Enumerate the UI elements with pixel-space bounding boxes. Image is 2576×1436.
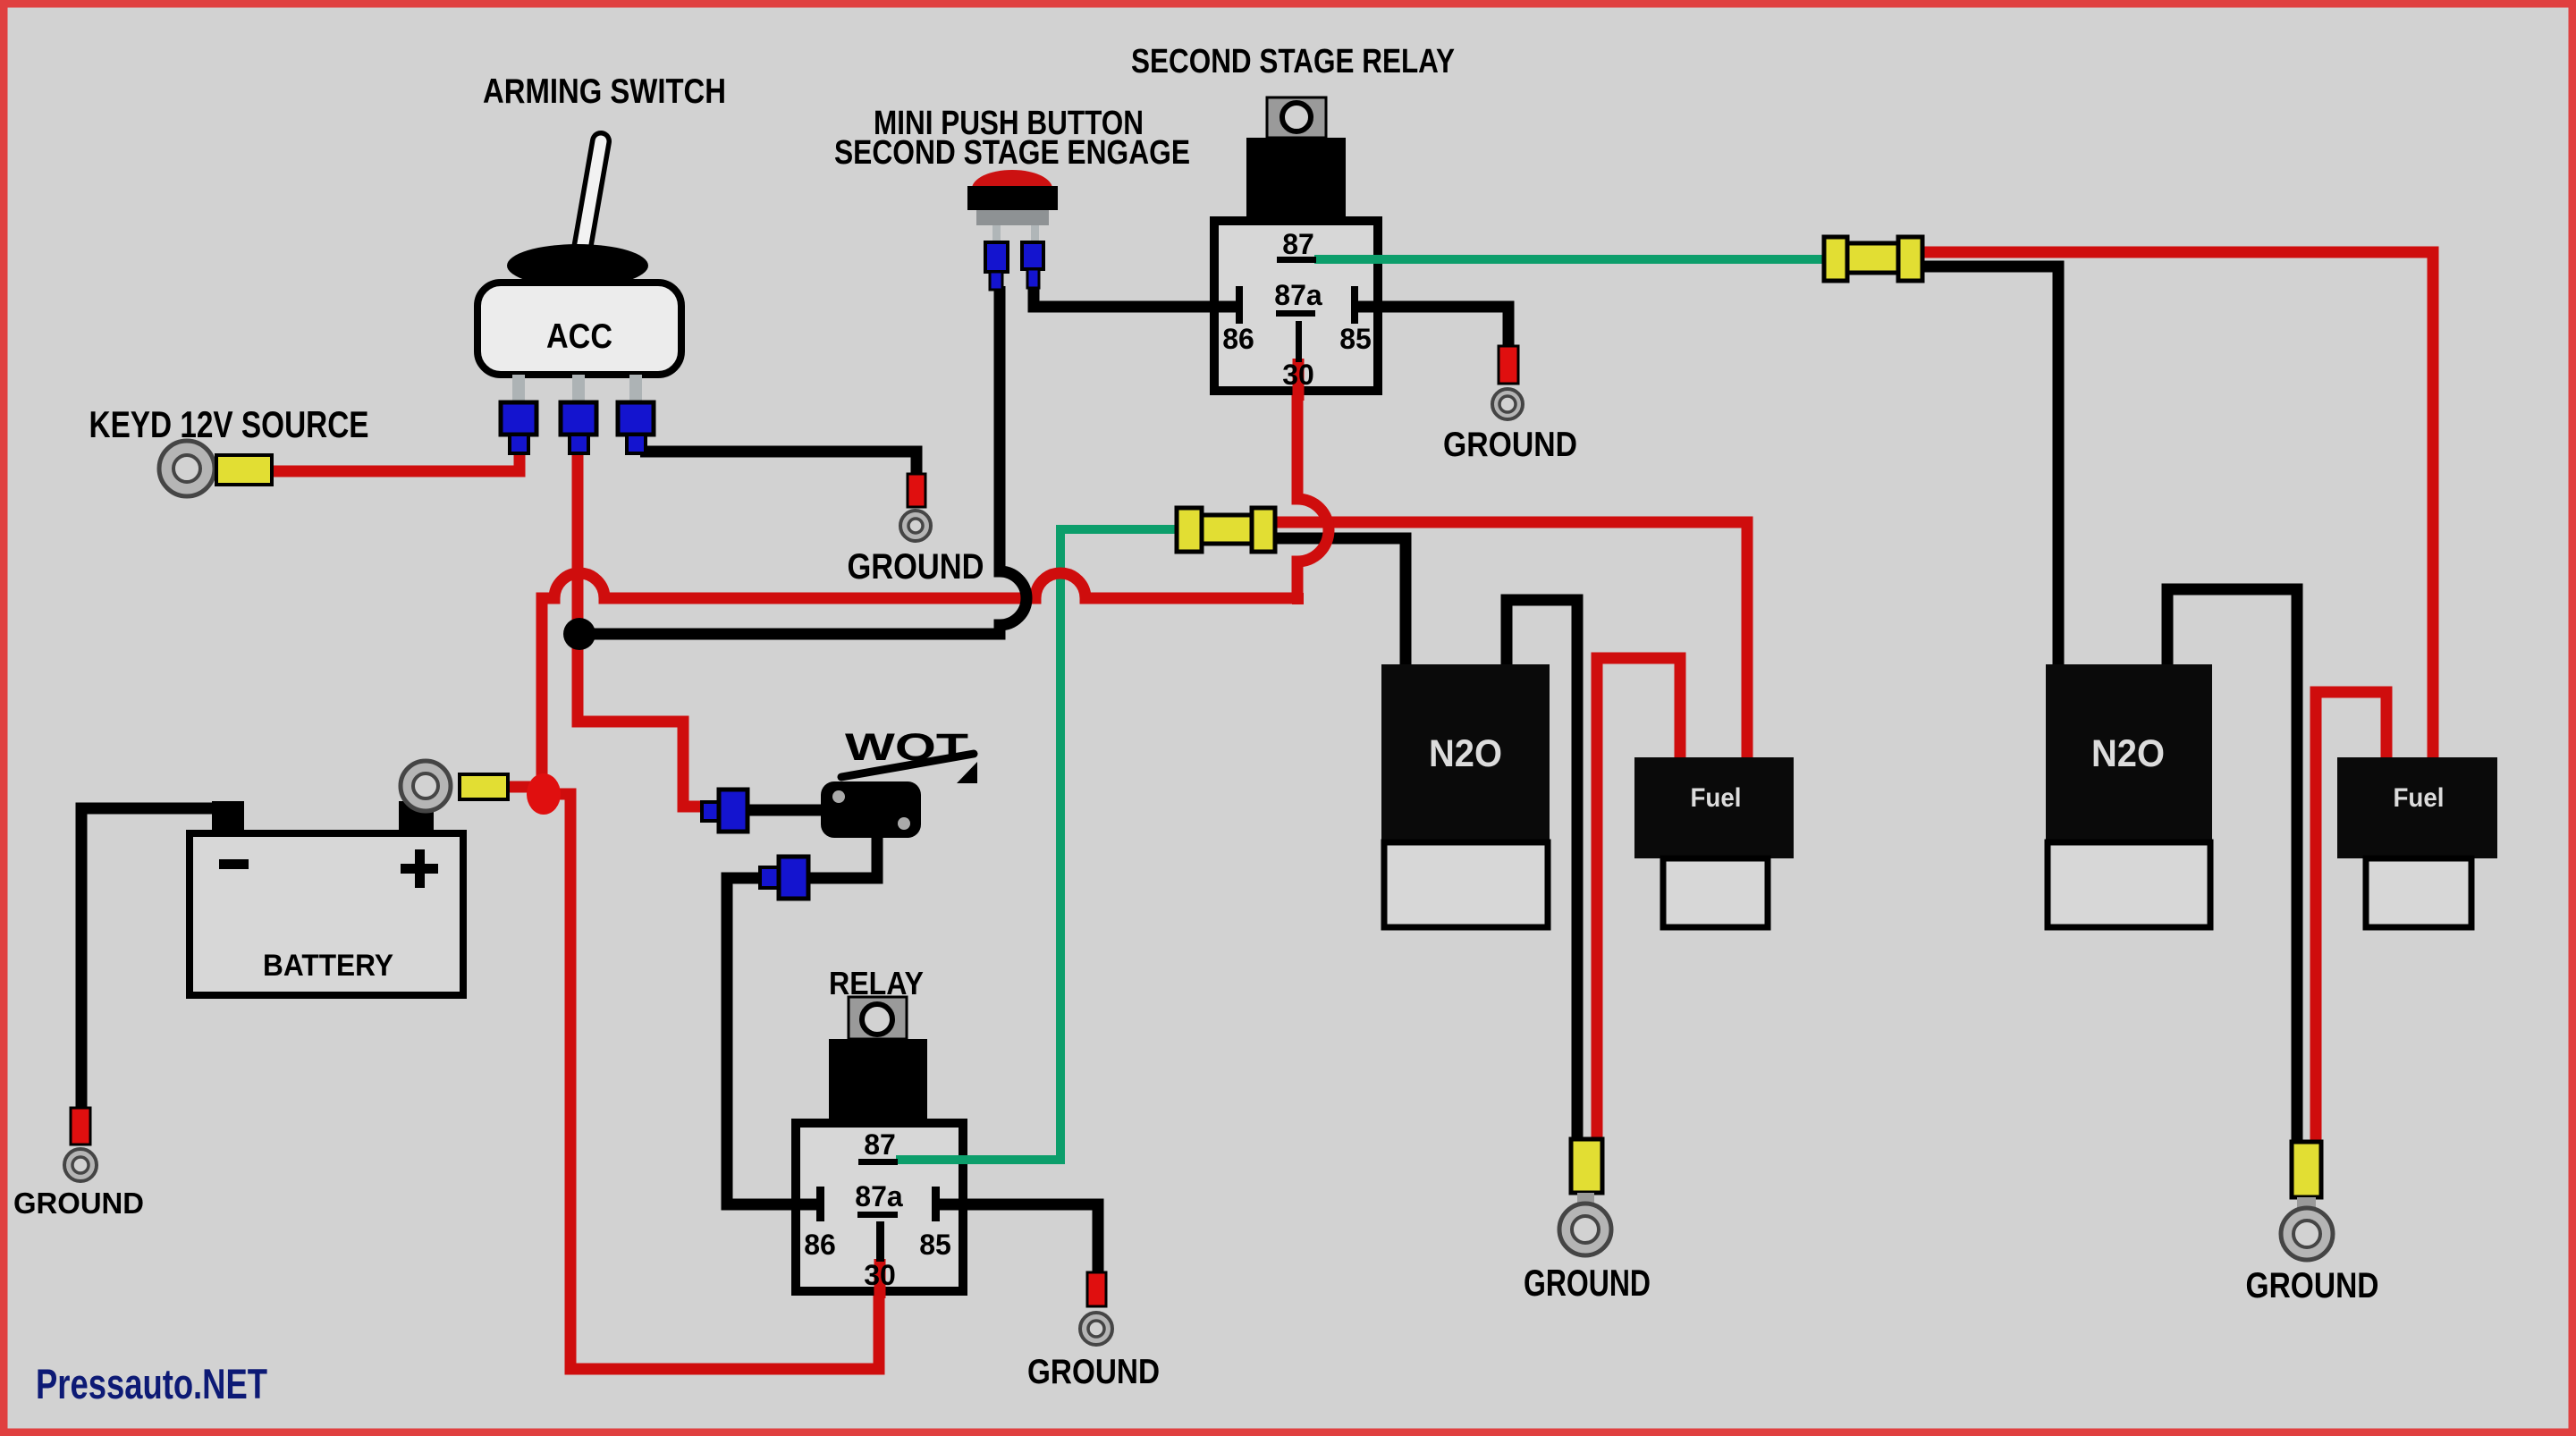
svg-text:85: 85: [1339, 323, 1372, 355]
node: black junction dot on red wire: [563, 618, 595, 650]
svg-text:BATTERY: BATTERY: [263, 949, 393, 983]
wire: red from left fuse right cap to left Fuel solenoid: [1273, 522, 1747, 759]
node: red junction dot at battery positive: [527, 773, 561, 815]
svg-text:87: 87: [864, 1128, 896, 1161]
WOT lever: [841, 754, 974, 777]
wire: black right N2O to shared ground: [2167, 589, 2297, 1145]
lower relay coil block: [829, 1039, 927, 1123]
wire: second stage relay inner pin stubs: [1314, 255, 1386, 264]
svg-text:ARMING SWITCH: ARMING SWITCH: [483, 72, 726, 111]
wire: red from ACC middle pin down to WOT switch: [578, 449, 705, 807]
second stage relay mounting tab: [1267, 97, 1326, 138]
fuse F2 (top right inline fuse): [1824, 237, 1922, 281]
second stage relay body: [1214, 221, 1378, 391]
battery: [190, 833, 463, 995]
toggle switch lever: [581, 141, 601, 254]
wire: black from right fuse down to right N2O solenoid: [1921, 266, 2058, 666]
svg-text:GROUND: GROUND: [13, 1187, 144, 1220]
svg-text:N2O: N2O: [1429, 732, 1502, 775]
wire: red stub battery sleeve to junction: [506, 781, 540, 793]
ground terminal for lower relay 85: [1087, 1272, 1106, 1306]
wire: main red 12V net from battery junction to second stage relay 30 with hops: [542, 359, 1329, 796]
fuse F1 (left inline fuse): [1177, 508, 1275, 552]
wire: red from right fuse to right Fuel solenoid: [1921, 252, 2433, 759]
svg-text:87: 87: [1282, 228, 1314, 260]
svg-text:87a: 87a: [855, 1180, 903, 1212]
svg-text:KEYD 12V SOURCE: KEYD 12V SOURCE: [89, 403, 369, 445]
svg-text:30: 30: [1282, 359, 1314, 391]
toggle switch bushing oval: [507, 244, 648, 287]
svg-text:86: 86: [1222, 323, 1254, 355]
wire: black from junction dot to mini push button left pin (hop over red): [581, 286, 1026, 634]
ring terminal KEYD 12V: [159, 441, 215, 496]
svg-text:Pressauto.NET: Pressauto.NET: [36, 1360, 267, 1407]
lower relay mounting tab: [849, 997, 907, 1039]
svg-text:30: 30: [864, 1259, 896, 1291]
ACC pin 1 blue connector: [501, 402, 536, 435]
wire: black battery negative to ground: [81, 808, 234, 1110]
wire: black from mini push button right pin to relay 86: [1034, 284, 1237, 307]
right N2O solenoid: [2046, 664, 2212, 842]
wire: black from left fuse right cap down to left N2O solenoid: [1273, 538, 1406, 666]
ground terminal for second stage relay 85: [1499, 346, 1518, 384]
svg-text:GROUND: GROUND: [1443, 426, 1577, 464]
lower relay body: [796, 1123, 963, 1291]
svg-text:Fuel: Fuel: [2394, 783, 2445, 813]
mini push button: [972, 170, 1052, 207]
WOT input blue connector: [702, 802, 719, 821]
wire: lower relay inner pin stubs: [896, 1155, 975, 1164]
ground terminal for ACC right pin: [908, 474, 925, 507]
wire: red from KEYD 12V source to ACC pin 1: [268, 451, 519, 471]
svg-text:GROUND: GROUND: [2246, 1266, 2379, 1305]
second stage relay coil block: [1246, 138, 1346, 221]
node: red corner junction at relay-30 riser: [1292, 593, 1304, 604]
right Fuel solenoid: [2337, 757, 2497, 858]
wire: black left N2O to shared ground: [1507, 600, 1577, 1143]
wire: red from battery junction down and over to lower relay 30: [544, 794, 879, 1369]
ground terminal battery negative: [71, 1108, 90, 1145]
svg-text:86: 86: [804, 1229, 836, 1261]
ACC pin 2 blue connector: [561, 402, 596, 435]
svg-text:ACC: ACC: [546, 317, 612, 356]
WOT output blue connector: [760, 867, 779, 888]
wire: black from second stage relay 85 to ground: [1358, 307, 1508, 349]
svg-text:85: 85: [919, 1229, 951, 1261]
wire: black from lower connector to lower relay 86: [727, 878, 818, 1204]
wire: red right Fuel to shared ground: [2316, 692, 2386, 1145]
svg-text:N2O: N2O: [2091, 732, 2165, 775]
wire: green from left fuse down to lower relay 87: [899, 529, 1178, 1160]
svg-text:SECOND STAGE ENGAGE: SECOND STAGE ENGAGE: [834, 134, 1190, 172]
left Fuel solenoid: [1634, 757, 1794, 858]
wire: black from lower relay 85 to ground: [940, 1204, 1098, 1276]
wire: green from second stage relay 87 to right fuse: [1318, 255, 1826, 264]
wire: red left Fuel to shared ground: [1597, 658, 1680, 1143]
svg-text:Fuel: Fuel: [1691, 783, 1742, 813]
wire: black WOT output to lower blue connector: [810, 836, 877, 878]
svg-text:GROUND: GROUND: [848, 547, 984, 587]
WOT micro switch body: [821, 781, 921, 838]
push button left blue connector: [985, 242, 1008, 272]
ACC pin 3 blue connector: [618, 402, 654, 435]
push button right blue connector: [1022, 242, 1043, 269]
svg-text:SECOND STAGE RELAY: SECOND STAGE RELAY: [1131, 43, 1455, 80]
wire: black from ACC right pin to its ground terminal: [640, 452, 916, 476]
svg-text:GROUND: GROUND: [1524, 1262, 1651, 1304]
svg-text:87a: 87a: [1274, 279, 1322, 311]
shared ground left solenoid pair: [1571, 1139, 1602, 1193]
left N2O solenoid: [1381, 664, 1550, 842]
ACC switch pins: [512, 375, 525, 405]
ring terminal on battery positive: [401, 761, 451, 811]
wire: black WOT input from blue connector to switch body: [746, 805, 824, 816]
toggle switch body ACC: [477, 283, 681, 375]
svg-text:GROUND: GROUND: [1027, 1353, 1160, 1391]
shared ground right solenoid pair: [2292, 1142, 2321, 1197]
